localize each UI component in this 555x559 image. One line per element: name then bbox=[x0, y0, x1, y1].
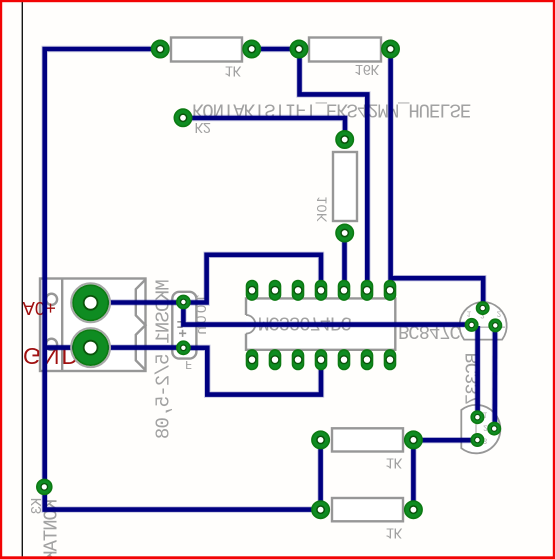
wire W15: T1 left pad down to T2 top pad bbox=[475, 326, 480, 417]
op-amp IC U1 body (MC33074PG DIP14) bbox=[246, 298, 395, 349]
svg-text:1K: 1K bbox=[386, 453, 403, 469]
U1 pin 12 bbox=[293, 350, 304, 370]
red frame top bbox=[0, 0, 555, 2]
wire W11: C1 bottom pad down around to IC pin 11 bbox=[183, 348, 321, 395]
red frame left band bbox=[0, 0, 2, 559]
resistor R3 body (10K vertical) bbox=[333, 152, 357, 221]
wire W5: branch to transistor T1 base pad bbox=[391, 278, 484, 308]
U1 pin 7 bbox=[385, 281, 396, 301]
pad C1.+ top bbox=[177, 295, 190, 308]
U1 pin 2 bbox=[270, 281, 281, 301]
soft halo under traces bbox=[45, 49, 495, 510]
wire W3: R2 left pad down and across to IC pin 6 bbox=[300, 49, 368, 290]
svg-text:1: 1 bbox=[467, 309, 472, 318]
pad T1.2 right bbox=[489, 319, 501, 331]
U1 pin 9 bbox=[362, 350, 373, 370]
U1 pin 8 bbox=[385, 350, 396, 370]
pad R1.2 bbox=[243, 40, 260, 57]
pad R3.2 bottom bbox=[336, 224, 353, 241]
pad T2.1 top bbox=[471, 411, 483, 423]
U1 pin 3 bbox=[293, 281, 304, 301]
resistor R1 body (1K top-left) bbox=[171, 38, 242, 62]
U1 pin 11 bbox=[316, 350, 327, 370]
pad X1.+V bbox=[71, 283, 110, 322]
wire W13: R4 right pad to R5 right pad bbox=[411, 440, 416, 510]
pad R4.2 bbox=[405, 431, 422, 448]
wire W14: R4 right pad to T2 bottom pad bbox=[413, 438, 477, 443]
svg-text:F: F bbox=[185, 357, 192, 371]
pad R2.2 bbox=[382, 40, 399, 57]
pad K3 contact pin bbox=[37, 479, 52, 494]
transistor T1 outline (BC847C TO92, flat bottom) bbox=[460, 302, 507, 340]
wire W2: R1 right pad to R2 left pad bbox=[252, 47, 299, 52]
wire W9: C1 top pad down to mid rail across to T1 left pad bbox=[183, 302, 471, 325]
pad K2 contact pin bbox=[174, 109, 191, 126]
transistor T2 outline (BC337 TO92, flat left) bbox=[461, 405, 500, 453]
U1 pin 10 bbox=[339, 350, 350, 370]
U1 pin 14 bbox=[247, 350, 258, 370]
pad R3.1 top bbox=[336, 131, 353, 148]
terminal block X1 outline (MKDSN1,5/2-5,08) bbox=[40, 279, 146, 372]
wire W7: R3 bottom pad to IC pin 5 bbox=[342, 233, 347, 290]
svg-text:A0+: A0+ bbox=[23, 298, 56, 319]
wire W10: GND rail from left rail to terminal GND pad and C1 bottom pad bbox=[45, 345, 184, 350]
terminal block X1 big pads bbox=[71, 283, 110, 367]
board dimension line (black) bbox=[22, 2, 23, 556]
pad X1.GND bbox=[71, 328, 110, 367]
small round pads: green ring, dark hole rim, white hole bbox=[37, 40, 422, 518]
svg-text:1K: 1K bbox=[225, 62, 242, 78]
svg-text:1K: 1K bbox=[386, 523, 403, 539]
red frame bottom bbox=[0, 556, 555, 559]
pad R1.1 bbox=[152, 40, 169, 57]
red frame right bbox=[553, 0, 555, 559]
resistor R5 body (1K bottom lower) bbox=[332, 498, 403, 521]
wire W8: terminal +V pad via C1 top pad up and across to IC pin 4 bbox=[91, 255, 321, 303]
svg-text:16K: 16K bbox=[355, 60, 380, 76]
wire W4: R2 right pad down to IC pin 7 bbox=[388, 49, 393, 290]
pad T1.1 left bbox=[465, 319, 477, 331]
pad T1.B top bbox=[477, 302, 489, 314]
pad C1.- bottom bbox=[177, 341, 190, 354]
U1 pin 1 bbox=[247, 281, 258, 301]
wire W1: R1 left pad to left rail down to K3 and bottom rail to R5 left pad bbox=[45, 49, 321, 510]
U1 pin 5 bbox=[339, 281, 350, 301]
svg-text:10K: 10K bbox=[314, 196, 330, 223]
U1 pin 13 bbox=[270, 350, 281, 370]
resistor R4 body (1K bottom upper) bbox=[332, 428, 403, 451]
wire W6: K2 pad to R3 top pad bbox=[183, 118, 346, 140]
svg-text:2: 2 bbox=[497, 309, 502, 318]
terminal screw circle pin1 bbox=[46, 339, 57, 350]
pad R2.1 bbox=[290, 40, 307, 57]
pad R4.1 bbox=[312, 431, 329, 448]
transistor pads bbox=[465, 302, 501, 446]
pad R5.2 bbox=[405, 501, 422, 518]
transistor pin numbers bbox=[467, 309, 502, 445]
svg-text:BC337: BC337 bbox=[463, 353, 485, 405]
terminal screw circle pin2 bbox=[46, 294, 57, 305]
U1 pin 4 bbox=[316, 281, 327, 301]
resistor R2 body (16K top-right) bbox=[309, 38, 381, 62]
capacitor C1 pads bbox=[177, 295, 190, 354]
pad R5.1 bbox=[312, 501, 329, 518]
capacitor C1 body (100n electrolytic) bbox=[172, 292, 196, 359]
pad T2.2 right bbox=[488, 422, 500, 434]
wire W16: T1 right pad down to T2 right pad bbox=[492, 325, 497, 428]
pad T2.3 bottom bbox=[471, 434, 483, 446]
IC U1 DIP14 oval pads, pins 1-7 top row (x=252+23i), pins 8-14 bottom row bbox=[247, 281, 396, 370]
U1 pin 6 bbox=[362, 281, 373, 301]
svg-text:2: 2 bbox=[483, 423, 488, 432]
wire W12: R4 left pad to R5 left pad bbox=[318, 440, 323, 510]
